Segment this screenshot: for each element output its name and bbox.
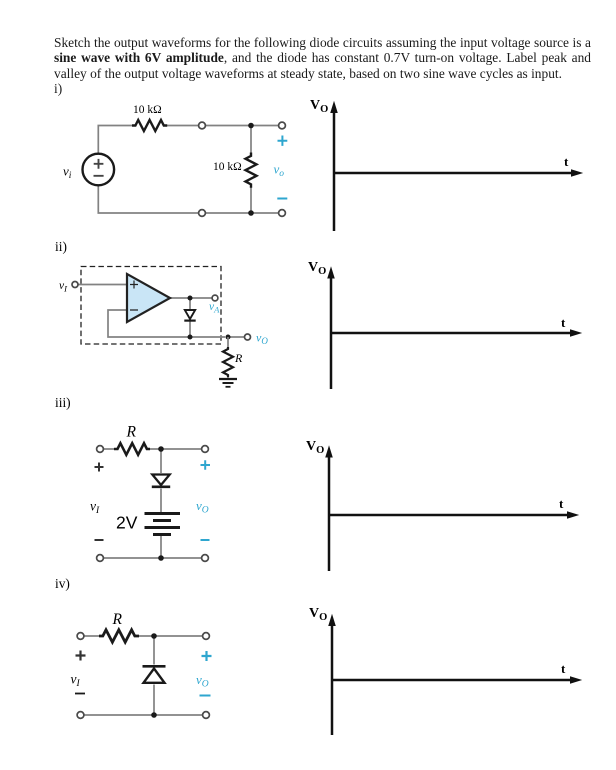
svg-text:10 kΩ: 10 kΩ	[133, 104, 162, 116]
svg-text:10 kΩ: 10 kΩ	[213, 161, 242, 173]
svg-text:VO: VO	[308, 260, 326, 277]
svg-text:vO: vO	[196, 498, 209, 516]
svg-text:2V: 2V	[116, 513, 138, 533]
svg-text:t: t	[561, 315, 566, 330]
svg-text:R: R	[126, 424, 137, 441]
svg-text:R: R	[234, 351, 243, 365]
svg-text:t: t	[559, 496, 564, 511]
svg-text:VO: VO	[310, 98, 328, 115]
svg-text:t: t	[564, 154, 569, 169]
svg-text:vo: vo	[274, 162, 285, 180]
svg-text:vI: vI	[59, 280, 68, 294]
svg-text:vO: vO	[256, 331, 268, 347]
svg-text:vI: vI	[90, 499, 100, 517]
svg-text:VO: VO	[306, 439, 324, 456]
svg-text:t: t	[561, 661, 566, 676]
svg-text:vi: vi	[63, 164, 72, 182]
svg-text:vA: vA	[209, 301, 220, 315]
svg-text:vI: vI	[71, 672, 81, 690]
svg-text:VO: VO	[309, 606, 327, 623]
svg-text:vO: vO	[196, 672, 209, 690]
svg-text:iii): iii)	[55, 395, 71, 410]
svg-text:ii): ii)	[55, 239, 67, 254]
svg-text:R: R	[112, 611, 123, 628]
svg-text:iv): iv)	[55, 576, 70, 591]
